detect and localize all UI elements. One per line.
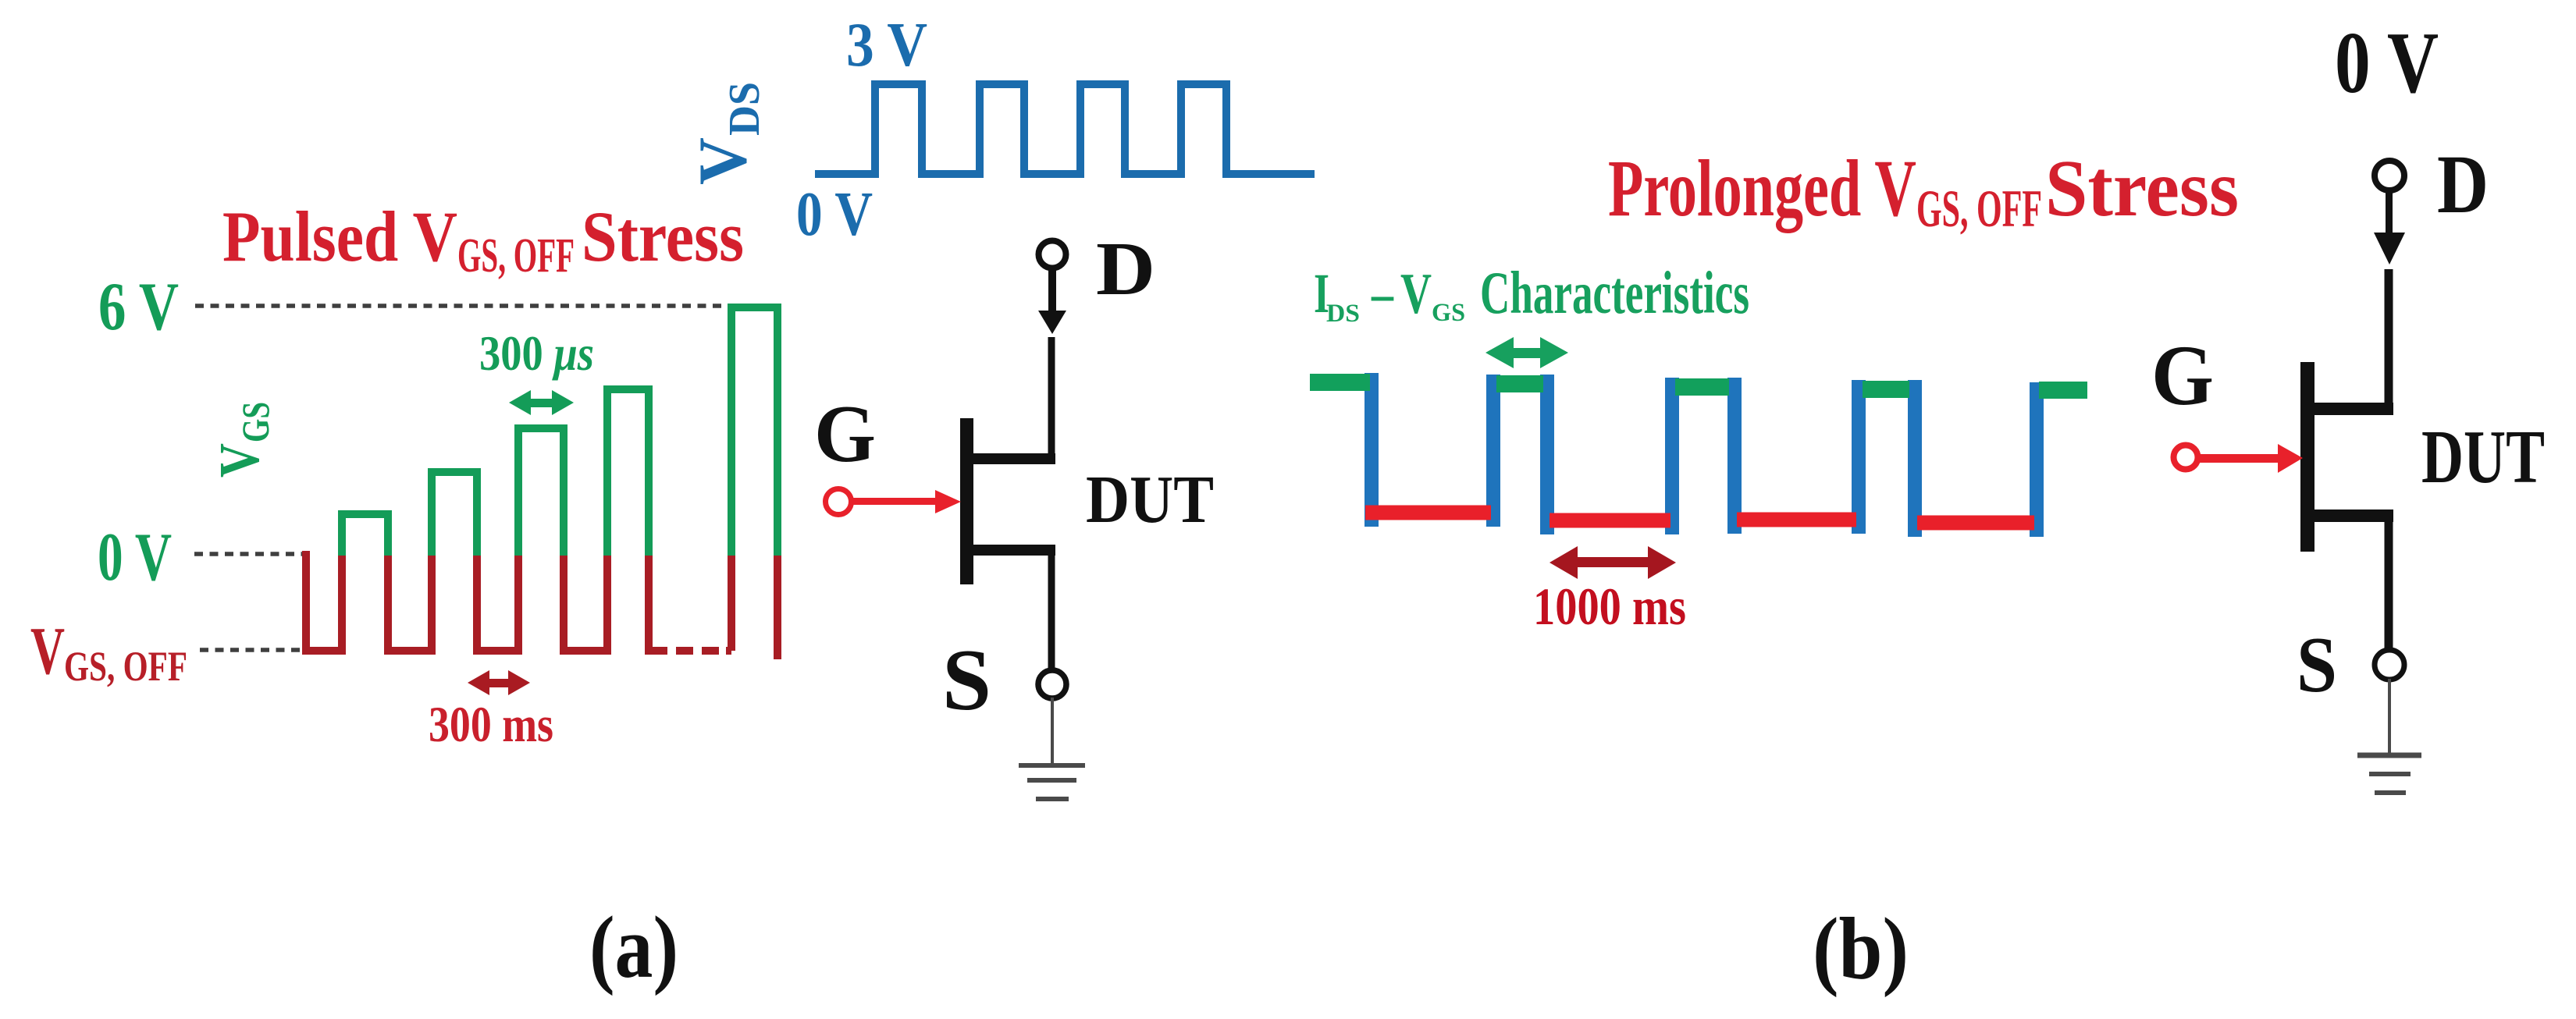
svg-text:DUT: DUT — [1086, 461, 1214, 537]
svg-text:GS: GS — [1432, 299, 1465, 327]
label VDS (rotated blue) — [685, 82, 769, 185]
dashed line 0V level — [194, 552, 310, 556]
transistor b: source terminal circle — [2375, 650, 2404, 680]
svg-text:0 V: 0 V — [2335, 15, 2439, 112]
label VGS,OFF (dark red) — [30, 612, 187, 690]
svg-text:GS, OFF: GS, OFF — [1916, 179, 2042, 238]
wire: VGS pulse 2 (green) — [432, 472, 477, 556]
wire: b-waveform blue fall 4 — [1908, 380, 1922, 537]
svg-text:300 ms: 300 ms — [429, 697, 553, 753]
wire: VGS OFF-level segment 5 (solid part) — [649, 556, 667, 651]
transistor b: gate arrow (red) — [2199, 454, 2279, 463]
wire: b-waveform green measure level 5 — [2039, 382, 2087, 399]
wire: b-waveform red stress level 4 — [1917, 516, 2034, 531]
svg-text:Stress: Stress — [582, 197, 744, 276]
svg-text:(a): (a) — [589, 899, 678, 996]
svg-text:S: S — [2297, 621, 2337, 709]
transistor a: source terminal circle — [1038, 670, 1066, 698]
wire: VGS pulse 3 (green) — [518, 428, 564, 556]
svg-text:3 V: 3 V — [846, 11, 927, 80]
wire: b-waveform red stress level 3 — [1737, 513, 1856, 527]
svg-text:0 V: 0 V — [98, 520, 172, 595]
wire: b-waveform green measure level 4 — [1863, 381, 1909, 398]
svg-text:V: V — [685, 137, 761, 185]
ground (a) bar 1 — [1019, 763, 1085, 768]
svg-text:0 V: 0 V — [796, 180, 873, 249]
wire: VGS pulse 4 (green) — [607, 389, 649, 556]
transistor b: drain terminal circle — [2375, 161, 2404, 190]
ground (b) bar 2 — [2369, 772, 2411, 776]
svg-text:300 μs: 300 μs — [479, 325, 594, 381]
arrow 300 ms (dark red double arrow) — [468, 670, 530, 695]
wire: b-waveform green measure level 2 — [1496, 375, 1543, 392]
arrow 300 us (green double arrow) — [509, 390, 574, 415]
svg-text:1000 ms: 1000 ms — [1533, 577, 1686, 636]
wire: VGS OFF-level segment 2 — [388, 556, 432, 651]
wire: b-waveform blue fall 2 — [1540, 375, 1554, 534]
ground (b) bar 3 — [2375, 790, 2406, 795]
dashed line VGS,OFF level — [200, 648, 304, 652]
wire: b-waveform green measure level 1 — [1310, 374, 1370, 391]
waveform VDS (blue square wave) — [815, 84, 1315, 174]
arrow 1000 ms (dark red double arrow) — [1550, 546, 1676, 579]
transistor a: drain stub — [973, 453, 1055, 464]
svg-text:DUT: DUT — [2421, 415, 2545, 499]
svg-text:V: V — [1400, 262, 1432, 326]
wire: b-waveform blue rise 4 — [2030, 382, 2044, 537]
svg-text:G: G — [814, 388, 876, 479]
title: Pulsed VGS,OFF Stress — [222, 197, 744, 282]
svg-text:Stress: Stress — [2045, 144, 2239, 233]
wire: VGS OFF-level dash 1 — [676, 647, 693, 655]
svg-text:6 V: 6 V — [98, 269, 179, 345]
transistor b: gate terminal circle (red) — [2174, 446, 2198, 470]
wire: ground lead (b) — [2388, 679, 2391, 754]
wire: VGS OFF-level segment 4 — [564, 556, 607, 651]
transistor a: drain wire — [1048, 337, 1055, 459]
label IDS - VGS Characteristics (green) — [1314, 259, 1749, 328]
transistor b: channel bar — [2300, 362, 2314, 552]
transistor a: gate arrow (red) — [852, 498, 937, 505]
arrow IDS-VGS (green double arrow) — [1485, 337, 1568, 368]
transistor b: source stub — [2314, 509, 2393, 522]
wire: b-waveform red stress level 2 — [1550, 513, 1670, 528]
transistor a: source wire — [1048, 550, 1055, 668]
svg-text:D: D — [1096, 227, 1155, 311]
svg-text:V: V — [30, 612, 65, 688]
wire: b-waveform blue rise 3 — [1852, 380, 1866, 534]
svg-text:DS: DS — [720, 82, 769, 136]
wire: b-waveform blue fall 1 — [1364, 373, 1379, 527]
transistor b: drain stub — [2314, 403, 2393, 415]
transistor b: drain arrow — [2386, 192, 2393, 234]
svg-text:Pulsed V: Pulsed V — [222, 197, 457, 276]
svg-text:Prolonged V: Prolonged V — [1608, 144, 1916, 233]
wire: b-waveform blue rise 2 — [1665, 378, 1679, 534]
wire: VGS pulse 1 (green) — [342, 514, 388, 556]
wire: b-waveform blue fall 3 — [1727, 378, 1742, 534]
dashed line 6V level — [195, 304, 726, 308]
wire: ground lead (a) — [1051, 698, 1054, 764]
transistor a: drain arrow — [1048, 268, 1056, 312]
wire: VGS rise of pulse 5 (red part) — [726, 556, 731, 651]
wire: b-waveform blue rise 1 — [1486, 375, 1500, 527]
wire: b-waveform green measure level 3 — [1675, 378, 1729, 396]
svg-text:DS: DS — [1326, 300, 1360, 328]
wire: VGS OFF-level dash 2 — [702, 647, 719, 655]
svg-text:(b): (b) — [1813, 900, 1909, 998]
svg-text:V: V — [208, 443, 271, 478]
svg-text:Characteristics: Characteristics — [1480, 259, 1749, 326]
ground (b) bar 1 — [2357, 753, 2421, 758]
svg-text:S: S — [942, 632, 991, 729]
ground (a) bar 3 — [1036, 797, 1069, 801]
transistor a: gate terminal circle (red) — [826, 489, 852, 515]
label VGS (rotated green) — [208, 402, 277, 478]
ground (a) bar 2 — [1027, 778, 1076, 783]
transistor a: drain terminal circle — [1039, 241, 1066, 268]
svg-text:GS: GS — [233, 402, 277, 442]
wire: VGS final fall tail (red) — [774, 556, 781, 659]
wire: VGS start drop and OFF-level segment 1 — [306, 551, 342, 651]
svg-text:G: G — [2151, 328, 2214, 423]
transistor b: source wire — [2385, 516, 2393, 650]
wire: VGS OFF-level segment 3 — [477, 556, 518, 651]
svg-text:–: – — [1371, 262, 1394, 325]
transistor b: drain wire — [2385, 269, 2393, 409]
transistor a: source stub — [973, 545, 1055, 556]
svg-text:D: D — [2437, 139, 2489, 231]
transistor a: channel bar — [960, 418, 973, 584]
wire: b-waveform red stress level 1 — [1365, 506, 1491, 520]
svg-text:GS, OFF: GS, OFF — [457, 229, 575, 282]
title: Prolonged VGS,OFF Stress — [1608, 144, 2239, 238]
wire: VGS pulse 5 (green, 6V) — [731, 307, 777, 556]
svg-text:GS, OFF: GS, OFF — [64, 643, 187, 690]
